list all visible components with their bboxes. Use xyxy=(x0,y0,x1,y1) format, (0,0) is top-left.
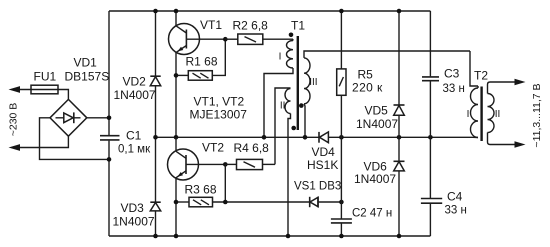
svg-text:R1 68: R1 68 xyxy=(186,55,218,69)
svg-text:FU1: FU1 xyxy=(34,70,57,84)
svg-text:1N4007: 1N4007 xyxy=(113,215,155,229)
svg-text:HS1K: HS1K xyxy=(307,158,338,172)
svg-text:VT1, VT2: VT1, VT2 xyxy=(194,95,245,109)
svg-text:33 н: 33 н xyxy=(445,205,467,217)
svg-text:C2 47 н: C2 47 н xyxy=(352,208,392,220)
svg-text:R4 6,8: R4 6,8 xyxy=(234,141,270,155)
svg-text:~11,3...11,7 В: ~11,3...11,7 В xyxy=(531,83,543,147)
svg-text:VT2: VT2 xyxy=(202,141,224,155)
svg-text:C1: C1 xyxy=(126,129,142,143)
svg-text:1N4007: 1N4007 xyxy=(354,172,396,186)
svg-text:C3: C3 xyxy=(444,67,460,81)
svg-text:II: II xyxy=(280,101,286,112)
svg-text:VD2: VD2 xyxy=(123,75,147,89)
svg-text:II: II xyxy=(495,109,501,120)
svg-text:1N4007: 1N4007 xyxy=(356,117,398,131)
svg-text:VD1: VD1 xyxy=(74,56,98,70)
svg-text:R3 68: R3 68 xyxy=(185,183,217,197)
svg-text:0,1 мк: 0,1 мк xyxy=(118,144,151,156)
svg-text:C4: C4 xyxy=(447,190,463,204)
svg-text:1N4007: 1N4007 xyxy=(114,88,156,102)
svg-text:VD5: VD5 xyxy=(365,104,389,118)
svg-text:MJE13007: MJE13007 xyxy=(190,108,248,122)
svg-text:I: I xyxy=(467,109,470,120)
svg-text:T2: T2 xyxy=(474,69,488,83)
svg-text:33 н: 33 н xyxy=(443,83,465,95)
svg-text:R5: R5 xyxy=(358,68,374,82)
svg-text:R2 6,8: R2 6,8 xyxy=(233,19,269,33)
svg-text:VD3: VD3 xyxy=(121,201,145,215)
svg-text:T1: T1 xyxy=(291,19,305,33)
svg-text:VT1: VT1 xyxy=(200,18,222,32)
svg-text:220 к: 220 к xyxy=(352,81,383,95)
svg-text:VD4: VD4 xyxy=(312,145,336,159)
svg-text:III: III xyxy=(309,77,317,88)
svg-text:I: I xyxy=(279,52,282,63)
svg-text:~230 В: ~230 В xyxy=(8,103,20,137)
svg-text:VS1 DB3: VS1 DB3 xyxy=(294,181,341,193)
svg-text:DB157S: DB157S xyxy=(65,70,110,84)
